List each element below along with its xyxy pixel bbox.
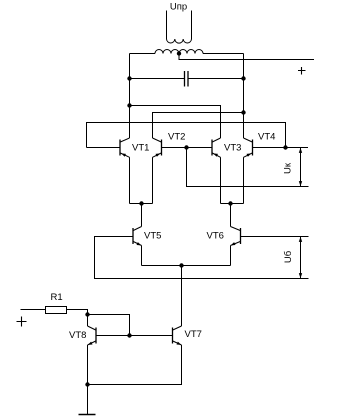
svg-text:VT1: VT1 [132,143,149,154]
wire VT6 base to Ub top reference [241,236,309,238]
wire base junction down to Uc bottom reference [187,148,309,187]
wire emitter junction to VT5 collector [141,204,143,227]
plus terminal (bias +) bottom left [17,317,27,327]
transistor VT8 (NPN mirrored) [88,326,97,345]
node VT3/VT4 emitter junction [228,201,232,205]
label VT2 [168,132,185,143]
wire plus to R1 [21,309,46,311]
label VT1 [132,143,149,154]
label VT4 [258,132,275,143]
node cap rail right [241,76,245,80]
wire VT1 base [87,147,121,149]
wire emitter junction to VT6 collector [230,204,232,227]
svg-text:VT8: VT8 [69,330,86,341]
transistor VT6 (NPN mirrored) [231,227,241,246]
label VT6 [207,231,224,242]
wire VT2 emitter down [152,157,154,203]
wire VT5/VT6 emitter join [142,265,231,267]
wire VT2 base to VT3 base [162,147,213,149]
wire VT4 emitter down [243,157,245,203]
wire emitter junction to VT7 collector [181,266,183,327]
svg-text:VT7: VT7 [185,329,202,340]
label VT7 [185,329,202,340]
wire VT1 emitter down [129,157,131,203]
label VT8 [69,330,86,341]
svg-text:VT4: VT4 [258,132,275,143]
node VT2/VT3 base junction [184,145,188,149]
wire VT1 collector to VT3 collector [130,106,221,139]
wire VT1 base loop to VT4 base [87,123,286,148]
node base line junction [127,333,131,337]
label R1 [51,292,63,303]
wire VT8 emitter down to ground [87,345,89,415]
node R1/VT8 collector junction [85,312,89,316]
wire VT5 emitter down [141,246,143,266]
svg-text:VT5: VT5 [144,231,161,242]
plus terminal (supply +) top right [298,67,306,75]
node VT4 base junction [283,145,287,149]
label VT3 [224,143,241,154]
transistor VT5 (NPN) [133,227,142,246]
wire cap rail left segment [130,78,185,80]
wire center tap to plus terminal [179,54,314,60]
svg-text:Uб: Uб [283,250,294,263]
wire secondary left lead [130,53,156,55]
svg-text:VT2: VT2 [168,132,185,143]
dimension Uc vertical with arrows [299,148,302,187]
label Unp (primary voltage) [170,2,187,13]
transistor VT3 (PNP) [212,138,221,157]
svg-text:VT6: VT6 [207,231,224,242]
wire secondary right lead [203,53,244,55]
label Uk (rotated) [283,162,294,174]
transformer T1 primary winding [167,11,192,44]
transistor VT2 (PNP mirrored) [153,138,162,157]
node VT1/VT3 collector junction [127,103,131,107]
wire junction to VT7/VT8 base line [88,315,130,336]
wire VT6 emitter down [230,246,232,266]
node VT2/VT4 collector junction [241,110,245,114]
transformer T1 secondary winding [155,50,203,54]
svg-text:VT3: VT3 [224,143,241,154]
svg-text:Uк: Uк [283,162,294,174]
wire R1 to junction [67,310,88,327]
node ground junction [85,382,89,386]
transistor VT4 (PNP mirrored) [244,138,253,157]
capacitor C1 [185,71,189,87]
wire left rail (VT1 collector) [129,54,131,139]
ground [79,414,96,416]
svg-text:Uпр: Uпр [170,2,187,13]
wire cap rail right segment [188,78,244,80]
resistor R1 [46,307,67,314]
wire VT3 emitter down [220,157,222,203]
dimension Ub vertical with arrows [299,237,302,279]
label VT5 [144,231,161,242]
wire VT2 collector to VT4 collector [153,113,244,139]
label Ub (rotated) [283,250,294,263]
svg-text:R1: R1 [51,292,63,303]
node center tap [177,51,181,55]
node VT1/VT2 emitter junction [139,201,143,205]
wire VT7 emitter down and across [88,345,182,385]
wire VT4 base to Uc top reference [253,147,309,149]
wire VT8 base to VT7 base [96,335,173,337]
wire VT3/VT4 emitter join [221,203,244,205]
wire VT1/VT2 emitter join [130,203,153,205]
node cap rail left [127,76,131,80]
wire right rail (VT4 collector) [243,54,245,139]
transistor VT7 (NPN) [173,326,182,345]
transistor VT1 (PNP) [120,138,130,157]
node VT5/VT6 emitter junction [179,263,183,267]
wire VT5 base loop [95,237,309,279]
